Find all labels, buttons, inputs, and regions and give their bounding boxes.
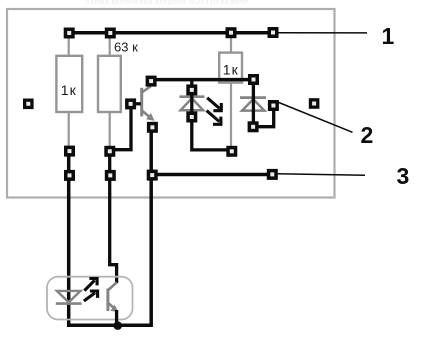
- node A: [64, 28, 75, 39]
- wire: thin lead to terminal 1: [277, 32, 367, 34]
- wire: lead R3 bottom to node H: [230, 83, 232, 148]
- wire: node I right and up to node J: [253, 107, 273, 127]
- node L isolated left: [23, 99, 34, 110]
- node T row3: [147, 170, 158, 181]
- wire: node G down then right to node H: [192, 115, 230, 150]
- wire: thin lead to terminal 3: [277, 174, 365, 176]
- wire: lead R1 bottom to node Q: [68, 112, 70, 148]
- resistor R2 63k: [98, 40, 138, 112]
- node E: [248, 74, 259, 85]
- wire: thin callout to terminal 2: [279, 103, 353, 133]
- wire: lead node B to R2 top: [109, 36, 111, 56]
- node Q: [64, 146, 75, 157]
- resistor R1 1k: [56, 56, 82, 112]
- node R: [64, 170, 75, 181]
- wire: top supply bus: [67, 31, 273, 35]
- svg-text:1к: 1к: [61, 82, 77, 98]
- dashed outline box (IC boundary): [7, 9, 335, 198]
- wire: collector bus over R3: [151, 78, 254, 82]
- node U row3 right: [267, 169, 278, 180]
- optocoupler light arrows: [84, 279, 98, 302]
- node G: [186, 112, 197, 123]
- wire: lead R2 bottom to node P: [109, 112, 111, 148]
- svg-text:схема включения оптрона АОТ110: схема включения оптрона АОТ110 включе: [86, 0, 249, 6]
- wire: base lead Q1: [132, 102, 141, 105]
- node O emitter: [147, 122, 158, 133]
- node B: [105, 28, 116, 39]
- node J: [268, 100, 279, 111]
- node M base: [125, 98, 136, 109]
- LED VD1 emission arrows: [207, 98, 222, 125]
- svg-text:2: 2: [361, 122, 374, 148]
- optocoupler phototransistor: [106, 282, 118, 312]
- node F: [186, 84, 197, 95]
- wire: lead node C to R3 top: [230, 36, 232, 53]
- svg-text:3: 3: [397, 163, 410, 189]
- optocoupler U1 body: [47, 277, 133, 320]
- diode VD2 symbol: [240, 98, 266, 111]
- optocoupler LED: [56, 291, 82, 304]
- wire: middle column node S down with jog to opto collector: [110, 148, 117, 283]
- wire: node M down and left to node P: [110, 106, 131, 150]
- node C: [226, 27, 237, 38]
- wire: lead node A to R1 top: [68, 36, 70, 56]
- wire: drop from bus through VD1 to node G: [190, 80, 193, 117]
- node N collector: [146, 76, 157, 87]
- wire: row 3 bus: [152, 173, 272, 177]
- node P: [104, 146, 115, 157]
- node D: [268, 27, 279, 38]
- node H: [226, 146, 237, 157]
- node S: [105, 170, 116, 181]
- node K isolated right: [309, 98, 320, 109]
- wire: node E through VD2 to node I: [252, 80, 255, 127]
- svg-text:1: 1: [382, 23, 395, 49]
- svg-text:63 к: 63 к: [114, 40, 138, 55]
- wire: left column node Q down, bottom run, right column up to node O: [69, 125, 152, 325]
- transistor Q1: [140, 86, 154, 121]
- node I: [248, 121, 259, 132]
- wire: opto emitter lead down to junction: [115, 310, 118, 326]
- LED VD1 symbol: [179, 97, 204, 111]
- svg-text:1к: 1к: [223, 62, 239, 78]
- resistor R3 1k: [219, 53, 242, 83]
- junction dot: [113, 321, 122, 330]
